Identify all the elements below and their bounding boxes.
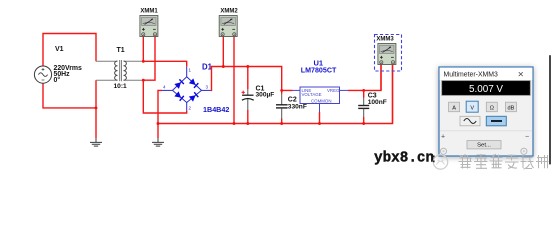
ground rail (bottom) [158,65,393,124]
button AC [460,116,480,126]
svg-text:Multimeter-XMM3: Multimeter-XMM3 [444,71,499,78]
svg-text:×: × [518,70,524,81]
window input jacks [440,148,446,154]
wire XMM1 left terminal [142,37,144,62]
node XMM2-right [233,122,236,125]
wire U1 output to XMM3 [348,65,381,91]
svg-text:−: − [525,134,529,141]
wire XMM2 left terminal [222,37,224,67]
multimeter XMM1 [140,16,158,37]
node rail-left [157,122,160,125]
svg-text:1B4B42: 1B4B42 [203,105,229,114]
svg-text:C2: C2 [288,96,297,103]
capacitor C3 [362,89,365,92]
capacitor C2 [280,89,283,92]
ground symbol (left, under transformer) [90,138,102,146]
wire secondary top to bridge pin1 [143,61,186,67]
svg-text:330nF: 330nF [288,104,307,111]
transformer T1 [96,61,143,80]
AC source V1 [34,66,51,83]
button ohm [486,102,497,112]
watermark circle logo [433,155,447,169]
svg-text:XMM1: XMM1 [140,9,158,15]
svg-text:Set...: Set... [477,143,491,149]
wire XMM3 right terminal [392,65,394,124]
svg-text:10:1: 10:1 [114,83,128,90]
wire secondary bottom to bridge pin2 [143,80,186,113]
svg-text:5.007 V: 5.007 V [469,84,503,95]
svg-text:T1: T1 [117,47,125,54]
svg-text:V1: V1 [55,46,64,53]
svg-text:Ω: Ω [490,105,494,111]
multimeter XMM2 [219,16,237,37]
wire bridge pin3 to U1 input [211,67,293,91]
wire transformer primary bottom to ground [95,80,97,138]
svg-text:300µF: 300µF [256,92,275,99]
svg-text:COMMON: COMMON [311,98,332,103]
svg-text:0°: 0° [54,76,61,84]
button Set [467,141,501,149]
svg-text:VOLTAGE: VOLTAGE [302,92,322,97]
diode D1d (bottom to right) [189,92,199,101]
op-amp U1 regulator LM7805CT [293,87,349,112]
XMM3 selection box [375,35,402,72]
ground symbol (rail left end) [152,138,164,146]
wire XMM1 right terminal [143,37,155,81]
multimeter XMM3 [378,44,396,65]
button V (selected) [466,101,478,112]
node XMM1-left/secondary-top [142,60,145,63]
diode D1c (left to bottom) [174,91,184,100]
wire U1 common to rail [319,112,321,124]
svg-text:XMM2: XMM2 [220,9,238,15]
wire V1 top to transformer primary top [43,34,96,67]
node V1-bottom junction [95,106,98,109]
C1 plus mark [242,91,245,94]
wire V1 bottom [43,83,96,108]
window edge line (right) [549,55,551,164]
svg-text:dB: dB [507,105,514,111]
bridge rectifier D1 [162,67,211,111]
watermark chinese text 懂事电子设计 [459,154,549,169]
svg-text:VREG: VREG [327,88,340,93]
wire XMM2 right terminal to rail [233,37,235,124]
button A [449,102,460,112]
svg-text:A: A [452,105,456,111]
svg-text:+: + [441,134,445,141]
wire bridge pin4 to ground rail [158,90,162,138]
button dB [505,102,516,112]
svg-text:100nF: 100nF [368,99,387,106]
watermark colon [433,156,435,163]
svg-text:V: V [470,105,474,111]
node XMM2-left [222,65,225,68]
svg-text:XMM3: XMM3 [376,37,394,43]
diode D1b (top to right) [189,78,199,88]
Multimeter-XMM3 window [439,67,533,156]
wire XMM3 left terminal [380,65,382,91]
capacitor C1 [247,67,249,90]
node secondary-bottom [142,79,145,82]
svg-text:LM7805CT: LM7805CT [301,67,337,75]
svg-text:ybx8.cn: ybx8.cn [374,151,434,167]
button DC (selected) [486,116,506,126]
diode D1a (left to top) [174,79,184,89]
